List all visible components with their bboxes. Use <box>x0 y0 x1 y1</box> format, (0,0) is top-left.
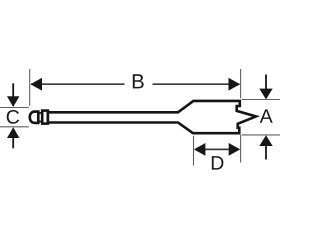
bit shank end cap <box>30 112 39 123</box>
dimension A extension line bottom <box>242 134 280 136</box>
dimension B extension line right <box>240 69 242 98</box>
dimension C arrow top stem <box>12 83 14 96</box>
bit shank groove neck bottom <box>38 121 42 123</box>
dimension D arrow right <box>229 143 241 156</box>
dimension D arrow left <box>194 143 206 156</box>
dimension D line <box>204 148 230 150</box>
dimension B line left segment <box>31 83 125 85</box>
dimension A arrow bottom <box>259 135 272 146</box>
label C <box>7 110 19 124</box>
dimension D extension line right <box>240 135 242 163</box>
dimension C extension line bottom <box>0 126 29 128</box>
label A <box>260 109 273 122</box>
bit shank collar <box>42 111 48 124</box>
label B <box>133 74 144 88</box>
dimension A extension line top <box>242 99 280 101</box>
bit shank groove neck top <box>38 112 42 114</box>
dimension B arrow right <box>229 78 241 91</box>
dimension A arrow top <box>259 89 272 100</box>
dimension B line right segment <box>153 83 240 85</box>
label D <box>212 156 224 169</box>
dimension A arrow bottom stem <box>265 146 267 160</box>
dimension C arrow top <box>7 96 19 107</box>
dimension C extension line top <box>0 107 29 109</box>
dimension B extension line left <box>29 69 31 106</box>
dimension D extension line left <box>193 136 195 166</box>
dimension C arrow bottom <box>7 127 19 138</box>
dimension C arrow bottom stem <box>12 138 14 149</box>
dimension A arrow top stem <box>265 75 267 90</box>
bit shaft and blade outline <box>48 101 256 133</box>
dimension B arrow left <box>30 78 42 91</box>
